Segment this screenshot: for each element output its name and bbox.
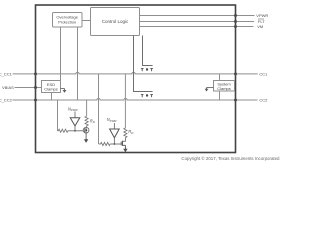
transistor Q4 pulldown FET (121, 141, 125, 149)
block U-CL Control Logic (91, 8, 140, 36)
svg-text:VPWR: VPWR (256, 13, 268, 18)
pin dot C_CC2 (34, 99, 37, 102)
pin dot CC1 (234, 72, 237, 75)
wire Rd1 bottom (86, 126, 88, 128)
pin dot CC2 (234, 99, 237, 102)
svg-text:C_CC2: C_CC2 (0, 98, 13, 103)
outer device box (36, 5, 236, 153)
label System Clamps (217, 81, 231, 91)
wire system clamps to CC2 row (219, 91, 221, 100)
resistor Rd2 (vertical zigzag) (124, 128, 127, 138)
resistor R-pulldown2 (horizontal zigzag) (99, 142, 111, 145)
wire VBIAS (15, 87, 42, 89)
wire gate drive row2 from Control Logic (134, 36, 153, 92)
pin dot C_CC1 (34, 72, 37, 75)
svg-text:CC1: CC1 (259, 72, 268, 77)
wire Rd2 bottom to FET drain (123, 138, 126, 142)
svg-text:Copyright © 2017, Texas Instru: Copyright © 2017, Texas Instruments Inco… (181, 156, 280, 161)
junction dot triangle1 output (74, 130, 76, 132)
label Overvoltage Protection (56, 15, 78, 25)
wire gate bus subcircuit1 (68, 130, 83, 132)
wire FLT (140, 21, 255, 23)
wire triangle1 output (74, 126, 76, 131)
svg-text:NPWR: NPWR (107, 117, 117, 123)
wire gate drive row1 from Control Logic (143, 36, 153, 66)
resistor R-pulldown1 (horizontal zigzag) (58, 129, 68, 132)
wire subcircuit1 left wall from C_CC2 (57, 100, 59, 131)
wire triangle2 output (113, 138, 115, 144)
svg-text:Clamps: Clamps (217, 86, 231, 91)
svg-text:CC2: CC2 (259, 98, 268, 103)
transistor Q3 pulldown FET in circle (83, 127, 89, 133)
ground subcircuit2 (arrow) (123, 149, 127, 153)
wire OVP to C_CC1 node (60, 27, 62, 81)
ground subcircuit1 (arrow) (85, 133, 87, 140)
wire ESD clamps to C_CC2 (51, 93, 53, 101)
wire system clamps to CC1 row (219, 74, 221, 81)
svg-text:Clamps: Clamps (44, 87, 58, 92)
resistor Rd1 (vertical zigzag) (85, 116, 88, 126)
wire OVP to C_CC2 node (77, 27, 79, 100)
block U-OVP Overvoltage Protection (53, 13, 83, 28)
wire C_CC2 row (hops over two verticals) (13, 98, 258, 100)
junction dot triangle2 output (114, 143, 116, 145)
block U-ESD ESD Clamps (42, 81, 61, 93)
label ESD Clamps (44, 82, 58, 92)
wire gate bus subcircuit2 (110, 143, 121, 145)
block U-SYS System Clamps (214, 81, 235, 92)
svg-text:Protection: Protection (58, 20, 76, 25)
op-amp N_PWR driver 2 (triangle) (110, 129, 120, 138)
svg-text:VM: VM (257, 24, 263, 29)
wire Rd1 top from C_CC2 (86, 100, 88, 116)
wire triangle1 input stub (74, 112, 76, 118)
pin dot VM (234, 25, 237, 28)
svg-text:RD: RD (128, 129, 133, 135)
transistor Q1 back-to-back FETs on CC1 row (141, 69, 153, 72)
svg-text:RD: RD (90, 118, 95, 124)
wire OVP to Control Logic (82, 20, 91, 22)
op-amp N_PWR driver 1 (triangle) (70, 118, 80, 126)
ground system clamps (207, 88, 214, 90)
wire C_CC1 row (hops over two verticals) (13, 72, 258, 74)
svg-text:VBIAS: VBIAS (2, 85, 14, 90)
wire subcircuit2 left wall from C_CC1 (98, 74, 100, 144)
wire VPWR (140, 15, 255, 17)
wire triangle2 input stub (113, 123, 115, 129)
pin dot VBIAS (34, 86, 37, 89)
wire Rd2 top from C_CC1 (124, 74, 126, 128)
pin dot VPWR (234, 14, 237, 17)
svg-text:Control Logic: Control Logic (102, 19, 129, 24)
svg-text:C_CC1: C_CC1 (0, 72, 13, 77)
pin dot FLT (234, 20, 237, 23)
transistor Q2 back-to-back FETs on CC2 row (141, 95, 153, 98)
wire VM (140, 26, 254, 28)
ground ESD clamps (61, 89, 65, 91)
svg-text:NPWR: NPWR (68, 106, 78, 112)
